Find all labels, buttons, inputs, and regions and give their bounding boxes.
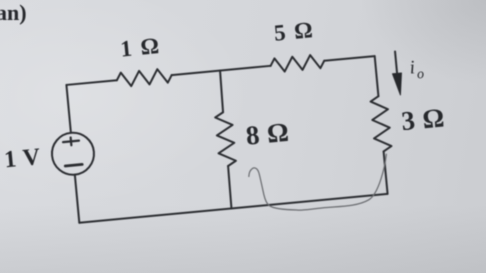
resistor R4 3ohm (right vertical zigzag) <box>370 95 392 152</box>
wire top right segment <box>324 56 374 61</box>
svg-text:5 Ω: 5 Ω <box>273 17 315 46</box>
svg-text:io: io <box>409 56 425 83</box>
wire middle branch upper <box>219 71 224 113</box>
svg-text:8 Ω: 8 Ω <box>244 117 290 151</box>
minus sign of source <box>65 164 82 166</box>
wire left upper segment <box>66 85 70 133</box>
svg-text:3 Ω: 3 Ω <box>400 102 446 136</box>
wire right upper segment <box>375 56 379 96</box>
current arrow io head <box>393 73 404 96</box>
plus sign of source <box>63 137 80 146</box>
svg-text:1 Ω: 1 Ω <box>119 33 161 62</box>
resistor R1 1ohm (top left zigzag) <box>116 68 172 87</box>
voltage source V1 circle <box>50 131 96 177</box>
pencil annotation arrow <box>248 154 391 215</box>
wire bottom <box>79 194 387 223</box>
wire top-left segment <box>66 80 116 85</box>
current arrow io line <box>395 51 397 74</box>
wire right lower segment <box>384 151 388 193</box>
wire top middle segment <box>172 66 271 75</box>
resistor R2 5ohm (top right zigzag) <box>270 54 325 73</box>
resistor R3 8ohm (middle vertical zigzag) <box>215 111 237 166</box>
wire left lower segment <box>75 175 80 223</box>
svg-text:1 V: 1 V <box>3 144 42 173</box>
svg-text:an): an) <box>0 0 27 25</box>
wire middle branch lower <box>227 166 232 208</box>
